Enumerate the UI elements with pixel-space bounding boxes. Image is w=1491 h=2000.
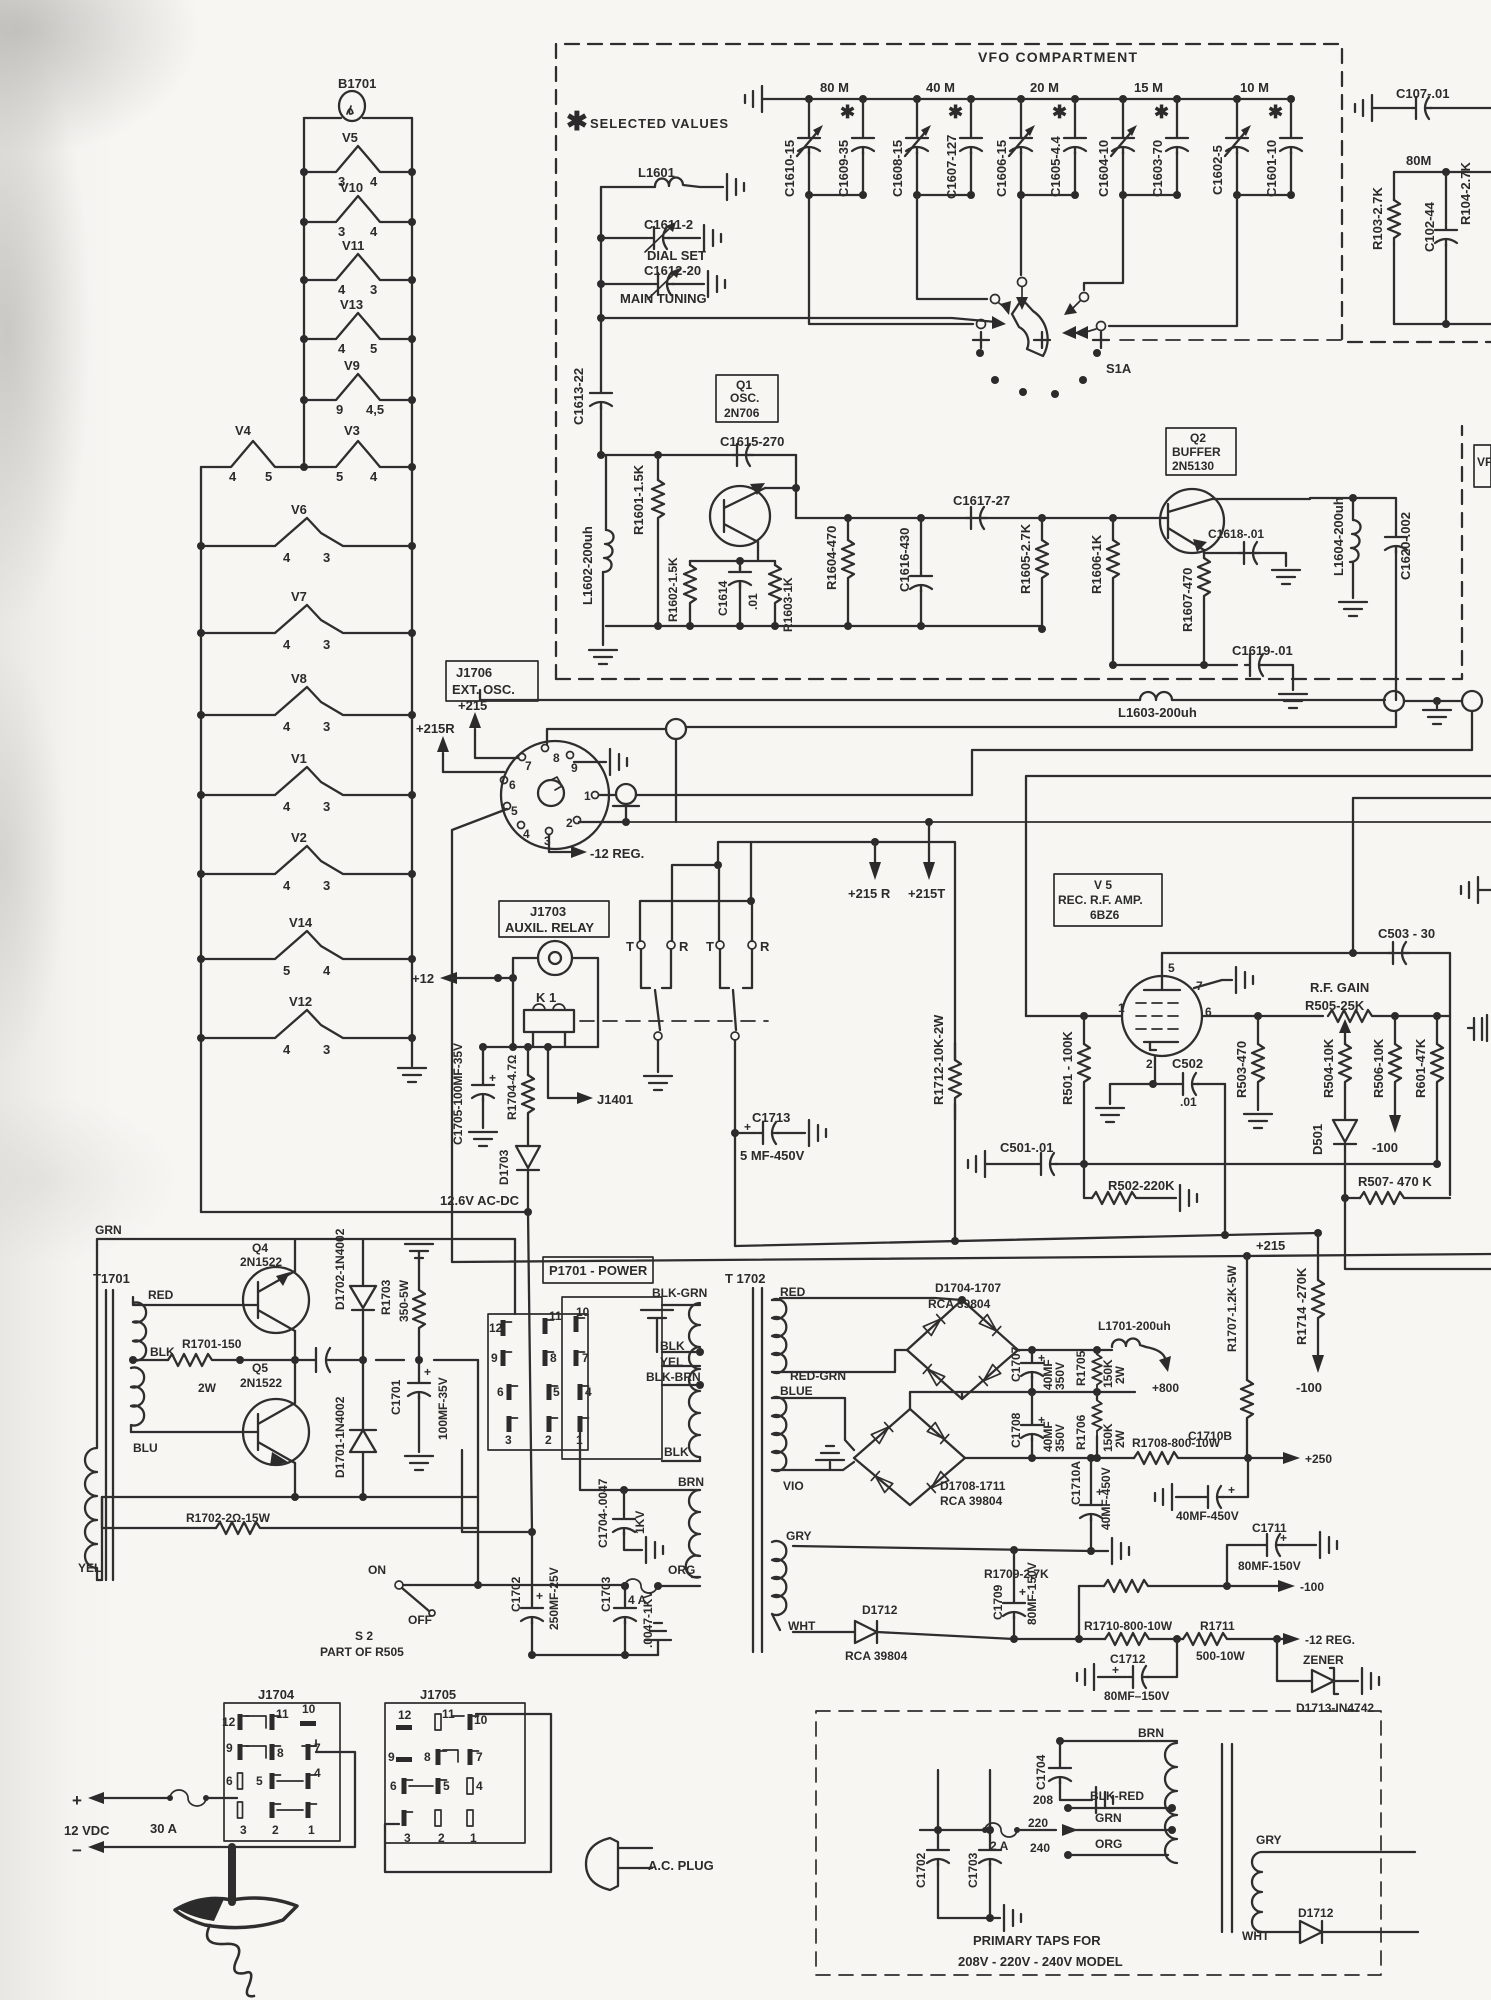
svg-text:OFF: OFF xyxy=(408,1613,432,1627)
svg-text:+215 R: +215 R xyxy=(848,886,891,901)
svg-text:ORG: ORG xyxy=(668,1563,695,1577)
svg-text:R504-10K: R504-10K xyxy=(1321,1038,1336,1098)
GRY line with ground xyxy=(793,1546,1108,1551)
wire pin 5 lower-left xyxy=(452,809,507,1262)
wire collector corner xyxy=(795,455,797,518)
svg-text:BLU: BLU xyxy=(133,1441,158,1455)
svg-text:10: 10 xyxy=(302,1702,316,1716)
svg-text:+215R: +215R xyxy=(416,721,455,736)
svg-text:+215: +215 xyxy=(1256,1238,1285,1253)
svg-text:4: 4 xyxy=(314,1766,321,1780)
svg-text:C107-.01: C107-.01 xyxy=(1396,86,1449,101)
svg-text:40 M: 40 M xyxy=(926,80,955,95)
svg-text:2N706: 2N706 xyxy=(724,406,760,420)
-12 REG arrow at pin 3 xyxy=(549,835,574,852)
svg-text:✱: ✱ xyxy=(1268,102,1283,122)
svg-text:3: 3 xyxy=(370,282,377,297)
svg-text:80MF–150V: 80MF–150V xyxy=(1104,1689,1169,1703)
resistor R1714-270K xyxy=(1314,1229,1322,1237)
T1702 secondary GRY winding xyxy=(772,1541,786,1630)
svg-text:4: 4 xyxy=(283,878,291,893)
svg-text:REC. R.F. AMP.: REC. R.F. AMP. xyxy=(1058,893,1143,907)
dashed box xyxy=(816,1711,1381,1975)
capacitor C1713 5MF-450V xyxy=(731,1129,739,1137)
dashed link from S1A to 80M box xyxy=(1120,339,1342,341)
wires from bank to switch S1A xyxy=(809,195,1237,331)
svg-text:R501 - 100K: R501 - 100K xyxy=(1060,1031,1075,1105)
WHT -12REG line xyxy=(1014,1638,1079,1640)
svg-text:C1605-4.4: C1605-4.4 xyxy=(1048,136,1063,197)
wire to switch xyxy=(477,1360,479,1585)
svg-text:V6: V6 xyxy=(291,502,307,517)
svg-text:BLUE: BLUE xyxy=(780,1384,813,1398)
svg-text:BRN: BRN xyxy=(678,1475,704,1489)
svg-text:ON: ON xyxy=(368,1563,386,1577)
svg-text:C102-44: C102-44 xyxy=(1422,201,1437,252)
svg-text:1: 1 xyxy=(1118,1001,1125,1015)
svg-text:-100: -100 xyxy=(1372,1140,1398,1155)
wire relay bottom bus xyxy=(483,1046,598,1048)
svg-text:Q1: Q1 xyxy=(736,378,752,392)
T1701 primary winding xyxy=(85,1245,97,1580)
S1A plus marks xyxy=(973,332,1109,348)
svg-text:350V: 350V xyxy=(1053,1362,1067,1390)
wire V5 bus to +215 xyxy=(735,1233,1318,1246)
svg-text:4,5: 4,5 xyxy=(366,402,384,417)
svg-text:5: 5 xyxy=(511,804,518,818)
svg-text:5 MF-450V: 5 MF-450V xyxy=(740,1148,805,1163)
wire osc top rail xyxy=(601,454,796,456)
svg-text:4: 4 xyxy=(370,469,378,484)
lamp B1701 xyxy=(339,91,365,121)
svg-text:3: 3 xyxy=(323,637,330,652)
svg-text:250MF-25V: 250MF-25V xyxy=(547,1567,561,1630)
svg-text:11: 11 xyxy=(276,1707,289,1721)
svg-text:C1606-15: C1606-15 xyxy=(994,140,1009,197)
svg-text:R1710-800-10W: R1710-800-10W xyxy=(1084,1619,1173,1633)
tube heater V6 xyxy=(201,502,412,565)
svg-text:PART OF R505: PART OF R505 xyxy=(320,1645,404,1659)
svg-text:Q2: Q2 xyxy=(1190,431,1206,445)
svg-text:V1: V1 xyxy=(291,751,307,766)
jack wiring xyxy=(513,958,598,1047)
svg-text:+12: +12 xyxy=(412,971,434,986)
partial VFO label box at right edge xyxy=(1474,445,1491,487)
socket pins xyxy=(519,754,526,761)
svg-text:2: 2 xyxy=(438,1831,445,1845)
svg-text:R1705: R1705 xyxy=(1074,1350,1088,1386)
T1701 secondary upper xyxy=(133,1302,146,1360)
svg-text:-100: -100 xyxy=(1300,1580,1324,1594)
svg-text:4: 4 xyxy=(370,224,378,239)
svg-text:2: 2 xyxy=(1146,1057,1153,1071)
svg-text:V8: V8 xyxy=(291,671,307,686)
svg-text:C1705-100MF-35V: C1705-100MF-35V xyxy=(451,1043,465,1145)
svg-text:R1604-470: R1604-470 xyxy=(824,526,839,590)
svg-text:C1603-70: C1603-70 xyxy=(1150,140,1165,197)
svg-text:R1707-1.2K-5W: R1707-1.2K-5W xyxy=(1225,1265,1239,1352)
svg-text:C1702: C1702 xyxy=(509,1576,523,1612)
svg-text:10 M: 10 M xyxy=(1240,80,1269,95)
tube heater V3 xyxy=(322,423,394,484)
osc bottom bus xyxy=(606,625,921,627)
svg-text:R502-220K: R502-220K xyxy=(1108,1178,1175,1193)
T1702 secondary RED winding xyxy=(772,1299,793,1373)
+215R tap arrow xyxy=(871,838,879,846)
wire switch to fuse xyxy=(403,1584,625,1586)
wire long run right y=750 xyxy=(972,711,1472,795)
svg-text:RCA 39804: RCA 39804 xyxy=(845,1649,908,1663)
svg-text:6BZ6: 6BZ6 xyxy=(1090,908,1120,922)
svg-text:C1613-22: C1613-22 xyxy=(571,368,586,425)
VIO ground xyxy=(816,1446,844,1460)
long run y=798 xyxy=(1353,798,1491,953)
svg-text:15 M: 15 M xyxy=(1134,80,1163,95)
svg-text:V13: V13 xyxy=(340,297,363,312)
V5 bottom bus xyxy=(1084,1163,1437,1165)
svg-text:.01: .01 xyxy=(1180,1095,1197,1109)
svg-text:AUXIL. RELAY: AUXIL. RELAY xyxy=(505,920,594,935)
variable capacitor C1602-5 xyxy=(1210,95,1251,195)
svg-text:C1608-15: C1608-15 xyxy=(890,140,905,197)
A.C. plug xyxy=(586,1838,618,1890)
svg-text:R507- 470 K: R507- 470 K xyxy=(1358,1174,1432,1189)
svg-text:10: 10 xyxy=(576,1305,590,1319)
svg-text:C1617-27: C1617-27 xyxy=(953,493,1010,508)
T1702 secondary BLUE winding xyxy=(772,1397,793,1471)
wire top rail xyxy=(304,117,412,119)
svg-text:T1701: T1701 xyxy=(93,1271,130,1286)
svg-text:L1601: L1601 xyxy=(638,165,675,180)
tube heater V13 xyxy=(322,297,394,356)
emitter bottom bus xyxy=(1113,664,1237,666)
svg-text:6: 6 xyxy=(497,1385,504,1399)
tube heater V14 xyxy=(201,915,412,978)
J1704 box xyxy=(224,1703,340,1841)
svg-text:3: 3 xyxy=(505,1433,512,1447)
svg-text:C1615-270: C1615-270 xyxy=(720,434,784,449)
P1701 pins row 4 xyxy=(505,1416,518,1447)
bottom bus with ground xyxy=(938,1917,1000,1919)
svg-text:PRIMARY TAPS FOR: PRIMARY TAPS FOR xyxy=(973,1933,1101,1948)
right edge ground y=890 xyxy=(1461,877,1478,903)
svg-text:R104-2.7K: R104-2.7K xyxy=(1458,162,1473,225)
svg-text:S1A: S1A xyxy=(1106,361,1132,376)
svg-text:4: 4 xyxy=(283,550,291,565)
grid pin1 wire xyxy=(1026,1015,1122,1017)
svg-text:+: + xyxy=(424,1365,431,1379)
svg-text:C1618-.01: C1618-.01 xyxy=(1208,527,1264,541)
wire T/R feed bracket xyxy=(672,842,955,1241)
svg-text:L1602-200uh: L1602-200uh xyxy=(580,526,595,605)
svg-text:SELECTED VALUES: SELECTED VALUES xyxy=(590,116,728,131)
J1705 pins row1 xyxy=(396,1708,412,1730)
svg-text:R1605-2.7K: R1605-2.7K xyxy=(1018,523,1033,594)
T1702 primary winding upper xyxy=(689,1303,700,1461)
ground between feedthroughs xyxy=(1433,697,1441,705)
svg-text:T: T xyxy=(706,939,714,954)
svg-text:V12: V12 xyxy=(289,994,312,1009)
long run y=776 xyxy=(1026,776,1491,1016)
svg-text:2W: 2W xyxy=(198,1381,217,1395)
svg-text:R1606-1K: R1606-1K xyxy=(1089,534,1104,594)
svg-text:L1603-200uh: L1603-200uh xyxy=(1118,705,1197,720)
svg-text:GRN: GRN xyxy=(1095,1811,1122,1825)
tube heater V2 xyxy=(201,830,412,893)
svg-text:✱: ✱ xyxy=(840,102,855,122)
svg-text:✱: ✱ xyxy=(1154,102,1169,122)
right edge capacitor stub xyxy=(1468,1018,1482,1040)
cathode xyxy=(1144,1042,1178,1050)
Q5 collector to YEL rail xyxy=(102,1497,478,1580)
wire down to power section xyxy=(528,1212,532,1532)
J1706 socket xyxy=(501,741,609,849)
plate xyxy=(1144,963,1180,990)
svg-text:S 2: S 2 xyxy=(355,1629,373,1643)
svg-text:20 M: 20 M xyxy=(1030,80,1059,95)
wire branch rail xyxy=(600,187,602,318)
svg-text:2N1522: 2N1522 xyxy=(240,1376,282,1390)
capacitor C1614 .01 xyxy=(729,567,751,588)
svg-text:V10: V10 xyxy=(340,180,363,195)
svg-text:1: 1 xyxy=(308,1823,315,1837)
+250 bus xyxy=(965,1457,1134,1459)
svg-text:R1706: R1706 xyxy=(1074,1414,1088,1450)
output buses xyxy=(1018,1349,1105,1351)
svg-text:−: − xyxy=(72,1841,82,1860)
J1705 pins row2 xyxy=(388,1750,412,1764)
svg-text:40MF-450V: 40MF-450V xyxy=(1176,1509,1239,1523)
svg-text:5: 5 xyxy=(336,469,343,484)
svg-text:V4: V4 xyxy=(235,423,252,438)
svg-text:+800: +800 xyxy=(1152,1381,1179,1395)
wire 80M box top rail xyxy=(1394,171,1491,173)
capacitor C1613-22 xyxy=(600,318,602,455)
svg-text:R1703: R1703 xyxy=(379,1279,393,1315)
P1701 connector label xyxy=(543,1257,653,1283)
svg-text:240: 240 xyxy=(1030,1841,1050,1855)
svg-text:C1713: C1713 xyxy=(752,1110,790,1125)
arrow J1401 xyxy=(548,1047,580,1098)
bridge2 connections xyxy=(772,1398,854,1470)
svg-text:A.C. PLUG: A.C. PLUG xyxy=(648,1858,714,1873)
svg-text:7: 7 xyxy=(476,1750,483,1764)
svg-text:VF: VF xyxy=(1477,455,1491,469)
svg-text:2W: 2W xyxy=(1113,1365,1127,1384)
svg-text:RED: RED xyxy=(148,1288,174,1302)
svg-text:R: R xyxy=(679,939,689,954)
wire osc signal rail xyxy=(796,517,1168,519)
wire lower feed to S1A xyxy=(597,314,605,322)
svg-text:80 M: 80 M xyxy=(820,80,849,95)
svg-text:D501: D501 xyxy=(1310,1124,1325,1155)
svg-text:5: 5 xyxy=(443,1779,450,1793)
svg-text:350V: 350V xyxy=(1053,1424,1067,1452)
variable capacitor C1610-15 xyxy=(782,95,823,197)
svg-text:MAIN TUNING: MAIN TUNING xyxy=(620,291,707,306)
svg-text:7: 7 xyxy=(525,759,532,773)
svg-text:9: 9 xyxy=(336,402,343,417)
svg-text:J1704: J1704 xyxy=(258,1687,295,1702)
transformer T1702 (tap version) winding xyxy=(1165,1743,1177,1863)
svg-text:1: 1 xyxy=(470,1831,477,1845)
svg-text:4: 4 xyxy=(585,1385,592,1399)
wire 40M to S1A xyxy=(917,195,987,299)
tube heater V8 xyxy=(201,671,412,734)
svg-text:C1601-10: C1601-10 xyxy=(1264,140,1279,197)
svg-text:6: 6 xyxy=(226,1774,233,1788)
svg-text:7: 7 xyxy=(582,1351,589,1365)
fixed capacitor C1603-70 xyxy=(1150,95,1188,197)
tube heater V7 xyxy=(201,589,412,652)
svg-text:12: 12 xyxy=(489,1321,503,1335)
svg-text:R103-2.7K: R103-2.7K xyxy=(1370,187,1385,250)
svg-text:4: 4 xyxy=(283,799,291,814)
pin 1 line with feedthrough xyxy=(599,794,616,796)
V5 label box xyxy=(1054,874,1162,926)
wire 10M to S1A xyxy=(1109,195,1237,326)
P1701 pins row 2 xyxy=(491,1350,512,1366)
feedthrough terminal xyxy=(1462,691,1482,711)
svg-text:C501-.01: C501-.01 xyxy=(1000,1140,1053,1155)
svg-text:R1601-1.5K: R1601-1.5K xyxy=(631,464,646,535)
svg-text:C1604-10: C1604-10 xyxy=(1096,140,1111,197)
middle bus xyxy=(1028,1388,1036,1396)
svg-text:BRN: BRN xyxy=(1138,1726,1164,1740)
svg-text:B1701: B1701 xyxy=(338,76,376,91)
wire left mid rail xyxy=(303,118,305,467)
J1704 pins row2 xyxy=(226,1741,249,1760)
svg-text:12 VDC: 12 VDC xyxy=(64,1823,110,1838)
tube heater V4 xyxy=(217,423,289,484)
variable capacitor C1608-15 xyxy=(890,95,931,197)
svg-text:V14: V14 xyxy=(289,915,313,930)
svg-text:4 A: 4 A xyxy=(628,1593,647,1607)
wire long thin run y=822 xyxy=(626,821,1491,823)
svg-text:4: 4 xyxy=(229,469,237,484)
svg-text:EXT. OSC.: EXT. OSC. xyxy=(452,682,515,697)
svg-text:12: 12 xyxy=(398,1708,412,1722)
svg-text:OSC.: OSC. xyxy=(730,391,759,405)
svg-text:T: T xyxy=(626,939,634,954)
relay T/R contacts xyxy=(626,818,955,1246)
cathode pin2 network xyxy=(1110,1056,1155,1104)
grids xyxy=(1136,1003,1178,1029)
tube heater V10 xyxy=(322,180,394,239)
J1705 pins row3 xyxy=(390,1778,413,1794)
svg-text:C1610-15: C1610-15 xyxy=(782,140,797,197)
J1704 pins row1 xyxy=(222,1714,249,1730)
pin5 plate riser xyxy=(1162,953,1450,1195)
svg-text:4: 4 xyxy=(283,637,291,652)
svg-text:208: 208 xyxy=(1033,1793,1053,1807)
wire GRN feed into P1701 xyxy=(514,1239,516,1314)
rotary switch S1A xyxy=(973,287,1342,398)
svg-text:500-10W: 500-10W xyxy=(1196,1649,1245,1663)
svg-text:100MF-35V: 100MF-35V xyxy=(436,1377,450,1440)
svg-text:R1714 -270K: R1714 -270K xyxy=(1294,1267,1309,1345)
svg-text:3: 3 xyxy=(323,550,330,565)
L1601 / dial set / main tuning branches xyxy=(597,165,1006,329)
bridge1 connections xyxy=(772,1298,962,1372)
svg-text:4: 4 xyxy=(370,174,378,189)
svg-text:DIAL SET: DIAL SET xyxy=(647,248,706,263)
svg-text:BUFFER: BUFFER xyxy=(1172,445,1221,459)
svg-text:C1701: C1701 xyxy=(389,1379,403,1415)
J1705 wiring to AC plug xyxy=(385,1714,551,1872)
svg-text:C1708: C1708 xyxy=(1009,1412,1023,1448)
svg-text:30 A: 30 A xyxy=(150,1821,178,1836)
svg-text:P1701 - POWER: P1701 - POWER xyxy=(549,1263,648,1278)
transistor Q1 xyxy=(710,486,770,546)
J1704 pins row3 xyxy=(226,1773,243,1789)
svg-text:208V - 220V - 240V MODEL: 208V - 220V - 240V MODEL xyxy=(958,1954,1123,1969)
svg-text:VFO COMPARTMENT: VFO COMPARTMENT xyxy=(978,49,1138,65)
svg-text:6: 6 xyxy=(509,778,516,792)
transistor Q2 xyxy=(1160,489,1224,553)
svg-text:K 1: K 1 xyxy=(536,990,556,1005)
fuse 4A xyxy=(621,1582,629,1590)
emitter network wire xyxy=(690,542,775,626)
svg-text:D1703: D1703 xyxy=(497,1149,511,1185)
bridge2 to ground tap xyxy=(910,1392,1135,1409)
svg-text:R1709-2.7K: R1709-2.7K xyxy=(984,1567,1049,1581)
fixed capacitor C1601-10 xyxy=(1264,95,1302,197)
svg-text:D1702-1N4002: D1702-1N4002 xyxy=(333,1228,347,1310)
svg-text:+: + xyxy=(72,1791,82,1810)
svg-text:5: 5 xyxy=(370,341,377,356)
T1702 core xyxy=(753,1288,762,1652)
svg-text:BLK: BLK xyxy=(664,1445,689,1459)
svg-text:V7: V7 xyxy=(291,589,307,604)
svg-text:350-5W: 350-5W xyxy=(397,1279,411,1322)
svg-text:11: 11 xyxy=(549,1309,562,1323)
svg-text:V 5: V 5 xyxy=(1094,878,1112,892)
svg-text:R506-10K: R506-10K xyxy=(1371,1038,1386,1098)
svg-text:4: 4 xyxy=(323,963,331,978)
svg-text:V5: V5 xyxy=(342,130,358,145)
wire right rail xyxy=(411,118,413,1038)
fixed capacitor C1609-35 xyxy=(836,95,874,197)
svg-text:D1712: D1712 xyxy=(862,1603,898,1617)
T1702 primary winding lower (BRN/ORG) xyxy=(686,1490,700,1577)
svg-text:+: + xyxy=(536,1589,543,1603)
svg-text:2: 2 xyxy=(566,816,573,830)
svg-text:D1701-1N4002: D1701-1N4002 xyxy=(333,1396,347,1478)
switch blades pair 1 xyxy=(641,949,671,988)
svg-text:L1604-200uh: L1604-200uh xyxy=(1331,497,1346,576)
svg-text:C1703: C1703 xyxy=(599,1576,613,1612)
svg-text:11: 11 xyxy=(442,1707,455,1721)
svg-text:C502: C502 xyxy=(1172,1056,1203,1071)
svg-text:4: 4 xyxy=(523,827,530,841)
svg-text:✱: ✱ xyxy=(566,106,588,136)
svg-text:1: 1 xyxy=(584,789,591,803)
phone jack xyxy=(538,941,572,975)
svg-text:+: + xyxy=(1280,1531,1287,1545)
svg-text:R1712-10K-2W: R1712-10K-2W xyxy=(931,1014,946,1105)
svg-text:6: 6 xyxy=(390,1779,397,1793)
svg-text:R1603-1K: R1603-1K xyxy=(781,577,795,632)
Q1 label box xyxy=(716,375,778,422)
svg-text:+215T: +215T xyxy=(908,886,945,901)
P1701 pins row 1 xyxy=(489,1320,512,1336)
center 12.6 rail xyxy=(328,1359,478,1361)
svg-text:40MF-450V: 40MF-450V xyxy=(1099,1467,1113,1530)
wire 80M to S1A xyxy=(809,195,973,324)
J1704 pins row4 xyxy=(238,1802,248,1837)
svg-text:3: 3 xyxy=(323,719,330,734)
